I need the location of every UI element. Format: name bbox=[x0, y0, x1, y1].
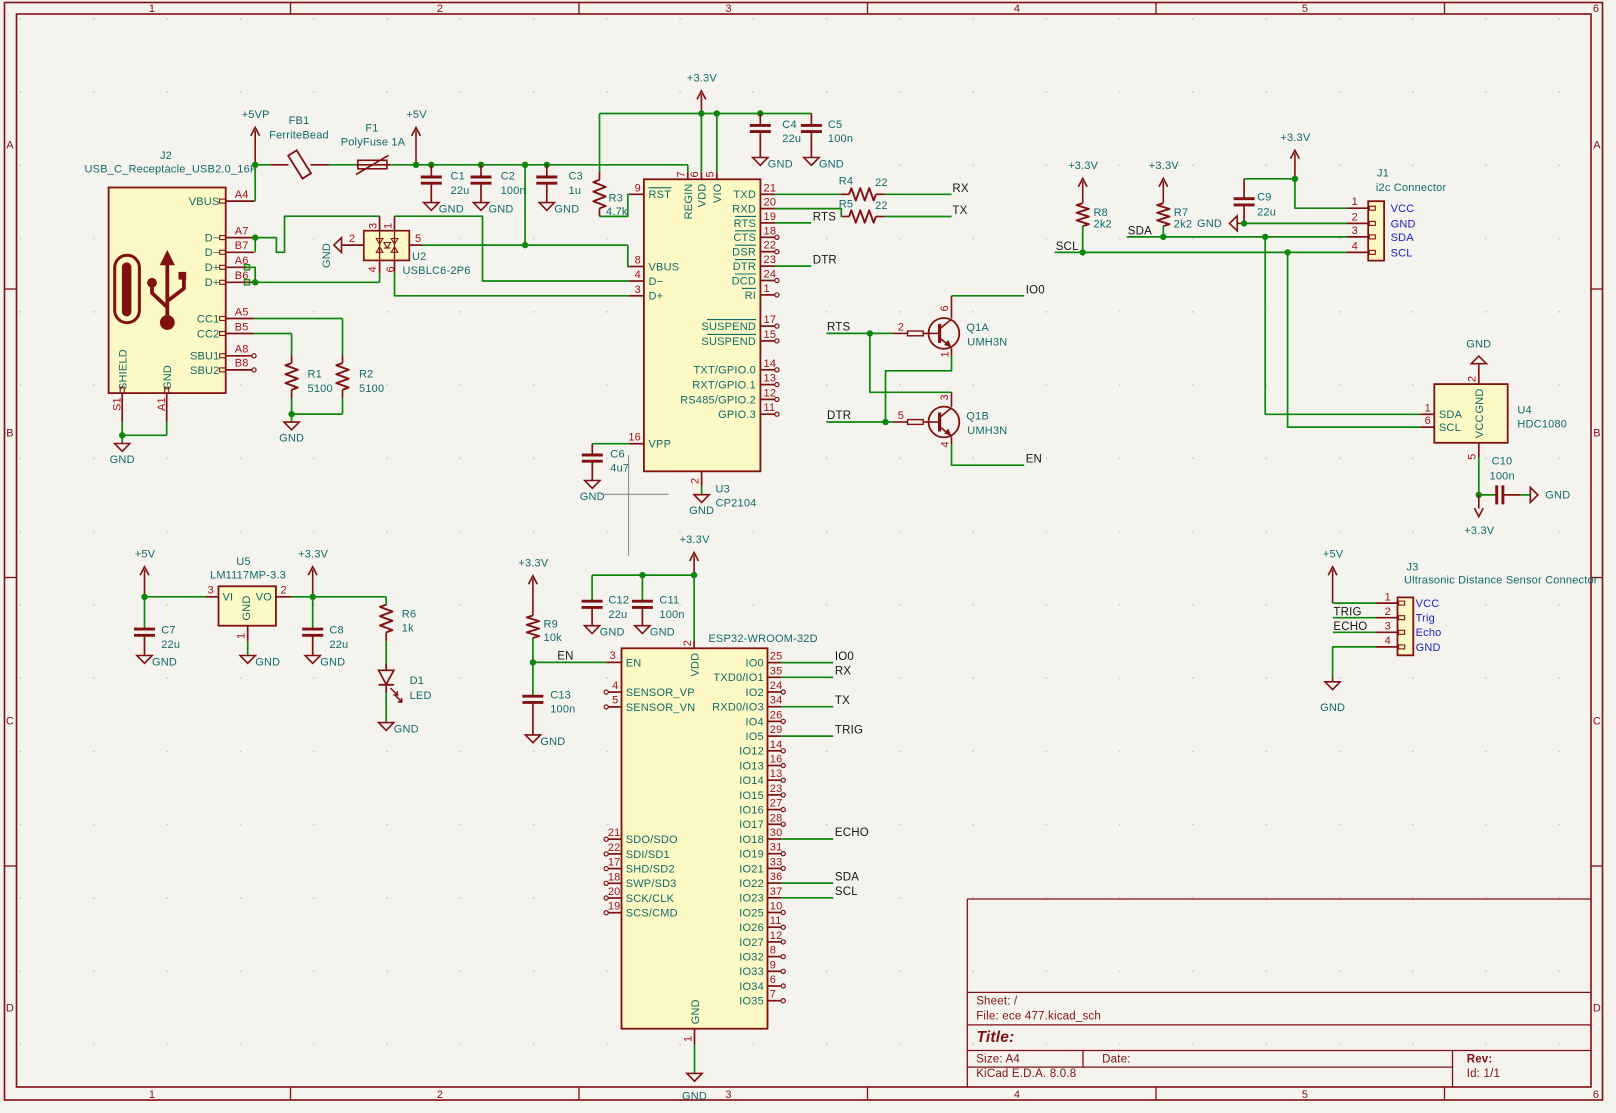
svg-text:C: C bbox=[1593, 716, 1601, 728]
svg-text:GND: GND bbox=[1474, 389, 1486, 414]
ground below U3 bbox=[694, 495, 709, 503]
svg-text:IO27: IO27 bbox=[739, 937, 764, 949]
svg-text:TX: TX bbox=[835, 695, 850, 707]
svg-text:9: 9 bbox=[770, 959, 776, 971]
svg-text:C2: C2 bbox=[501, 171, 515, 183]
svg-text:RTS: RTS bbox=[734, 218, 756, 230]
power +3.3V above R8 bbox=[1082, 181, 1084, 203]
svg-text:File: ece 477.kicad_sch: File: ece 477.kicad_sch bbox=[976, 1011, 1101, 1023]
svg-text:2: 2 bbox=[898, 321, 904, 333]
wire F1 to +5V rail bbox=[390, 164, 688, 166]
svg-text:+3.3V: +3.3V bbox=[1464, 525, 1495, 537]
svg-text:IO18: IO18 bbox=[739, 834, 764, 846]
svg-text:SDA: SDA bbox=[1439, 409, 1463, 421]
ESP32 pin 29 IO5 bbox=[746, 724, 783, 743]
svg-text:18: 18 bbox=[764, 225, 777, 237]
power +3.3V above ESP32 VDD bbox=[693, 556, 695, 576]
svg-text:RS485/GPIO.2: RS485/GPIO.2 bbox=[680, 394, 756, 406]
junction VDD bbox=[691, 572, 697, 578]
svg-text:2: 2 bbox=[281, 585, 287, 597]
svg-text:21: 21 bbox=[764, 182, 777, 194]
polyfuse F1 1A bbox=[341, 122, 406, 174]
capacitor C6 4u7 bbox=[582, 444, 629, 481]
power +3.3V above C8 bbox=[312, 570, 314, 597]
svg-text:1: 1 bbox=[764, 283, 770, 295]
wire C9 top to +3.3V bbox=[1244, 178, 1295, 180]
wire CC1 to R2 bbox=[254, 319, 342, 356]
svg-text:4: 4 bbox=[367, 266, 379, 272]
svg-text:SHD/SD2: SHD/SD2 bbox=[626, 864, 675, 876]
svg-text:RX: RX bbox=[835, 666, 852, 678]
resistor R1 5100 bbox=[285, 355, 332, 398]
junction SCL drop bbox=[1284, 249, 1290, 255]
svg-text:SUSPEND: SUSPEND bbox=[701, 336, 756, 348]
wire R1 R2 to ground bbox=[292, 398, 343, 422]
power +5V at rail bbox=[415, 130, 417, 164]
svg-text:GND: GND bbox=[650, 627, 675, 639]
svg-text:3: 3 bbox=[368, 223, 380, 229]
ESP32 pin 10 IO25 bbox=[739, 901, 785, 920]
svg-text:30: 30 bbox=[770, 827, 783, 839]
svg-text:100n: 100n bbox=[659, 609, 684, 621]
ground below C7 bbox=[137, 656, 152, 664]
svg-text:Trig: Trig bbox=[1416, 613, 1435, 625]
svg-text:GND: GND bbox=[768, 158, 793, 170]
svg-text:2: 2 bbox=[437, 3, 443, 15]
svg-text:6: 6 bbox=[939, 305, 951, 311]
svg-text:GND: GND bbox=[241, 595, 253, 620]
U4 pin 2 GND (top) bbox=[1467, 367, 1487, 413]
svg-text:25: 25 bbox=[770, 651, 783, 663]
U2 pin 4 stub bbox=[367, 260, 380, 282]
svg-text:3: 3 bbox=[208, 585, 214, 597]
svg-text:23: 23 bbox=[770, 783, 783, 795]
svg-text:VCC: VCC bbox=[1416, 598, 1440, 610]
svg-text:GND: GND bbox=[489, 204, 514, 216]
svg-text:F1: F1 bbox=[365, 122, 378, 134]
svg-text:100n: 100n bbox=[1490, 470, 1515, 482]
ground below C13 bbox=[525, 735, 540, 743]
svg-text:A7: A7 bbox=[235, 225, 249, 237]
svg-text:4: 4 bbox=[939, 441, 951, 447]
svg-text:C3: C3 bbox=[569, 171, 583, 183]
capacitor C7 22u bbox=[134, 597, 180, 656]
svg-text:21: 21 bbox=[608, 827, 621, 839]
wire +3.3V rail bbox=[600, 114, 812, 172]
capacitor C4 22u bbox=[750, 114, 801, 158]
svg-text:U5: U5 bbox=[236, 556, 250, 568]
ground below C1 bbox=[424, 203, 439, 211]
U3 pin 18 CTS bbox=[733, 225, 779, 244]
svg-text:14: 14 bbox=[770, 739, 783, 751]
svg-text:GND: GND bbox=[540, 736, 565, 748]
U3 pin 21 TXD bbox=[733, 182, 776, 201]
svg-text:R5: R5 bbox=[839, 199, 853, 211]
junction C1 top bbox=[428, 162, 434, 168]
U4 pin 5 VCC (bottom) bbox=[1467, 414, 1487, 459]
svg-text:VBUS: VBUS bbox=[649, 261, 680, 273]
ic U2 USBLC6-2P6 bbox=[364, 231, 471, 277]
wire DTR to Q1B base bbox=[826, 421, 892, 423]
svg-text:RTS: RTS bbox=[813, 211, 837, 223]
wire Q1B emitter to EN bbox=[952, 437, 1025, 466]
svg-text:6: 6 bbox=[689, 171, 701, 177]
svg-text:1: 1 bbox=[1385, 591, 1391, 603]
svg-text:3: 3 bbox=[635, 284, 641, 296]
svg-text:7: 7 bbox=[770, 989, 776, 1001]
svg-text:R4: R4 bbox=[839, 176, 853, 188]
ic U5 LM1117MP-3.3 bbox=[210, 556, 286, 626]
svg-text:TXD: TXD bbox=[733, 189, 756, 201]
wire CC2 to R1 bbox=[254, 334, 292, 356]
svg-text:A1: A1 bbox=[156, 397, 168, 411]
ground flag at C9 (left) bbox=[1197, 216, 1241, 231]
svg-text:36: 36 bbox=[770, 871, 783, 883]
J1 pin 4 SCL bbox=[1347, 240, 1413, 259]
ground symbol below R1 R2 bbox=[284, 422, 299, 430]
U2 pin 6 stub bbox=[385, 260, 397, 273]
capacitor C3 1u bbox=[536, 165, 583, 203]
USB logo inside J2 bbox=[115, 250, 187, 330]
capacitor C13 100n bbox=[522, 662, 575, 735]
wire TXD to R4 bbox=[775, 193, 841, 195]
svg-text:C7: C7 bbox=[161, 624, 175, 636]
svg-text:1: 1 bbox=[1352, 196, 1358, 208]
svg-text:SWP/SD3: SWP/SD3 bbox=[626, 878, 677, 890]
svg-text:SCL: SCL bbox=[835, 886, 858, 898]
svg-text:+5VP: +5VP bbox=[242, 109, 270, 121]
svg-text:VO: VO bbox=[256, 592, 273, 604]
wire D- A7 B7 to U2 pin3 bbox=[254, 216, 380, 252]
svg-text:100n: 100n bbox=[501, 185, 526, 197]
svg-text:22: 22 bbox=[875, 177, 888, 189]
svg-text:100n: 100n bbox=[828, 133, 853, 145]
svg-text:i2c Connector: i2c Connector bbox=[1376, 182, 1447, 194]
power +3.3V above R9 bbox=[532, 579, 534, 616]
wire VBUS rail to pin7 bbox=[687, 165, 689, 173]
capacitor C11 100n bbox=[632, 575, 685, 626]
svg-text:1k: 1k bbox=[402, 622, 414, 634]
junction B6 bbox=[252, 279, 258, 285]
svg-text:VBUS: VBUS bbox=[189, 196, 220, 208]
svg-text:J1: J1 bbox=[1377, 168, 1389, 180]
svg-text:22u: 22u bbox=[608, 609, 627, 621]
svg-text:RXD: RXD bbox=[732, 204, 756, 216]
svg-text:29: 29 bbox=[770, 724, 783, 736]
svg-text:Q1B: Q1B bbox=[966, 411, 989, 423]
U4 pin 6 SCL bbox=[1420, 415, 1461, 434]
wire VO to +3.3V junction bbox=[292, 596, 387, 598]
svg-text:6: 6 bbox=[1593, 1089, 1599, 1101]
ESP32 pin 35 TXD0/IO1 bbox=[713, 665, 782, 684]
wire RTS to Q1B collector bbox=[870, 333, 952, 392]
svg-text:SDO/SDO: SDO/SDO bbox=[626, 834, 678, 846]
svg-text:2k2: 2k2 bbox=[1174, 218, 1192, 230]
wire SDA to U4 bbox=[1265, 237, 1420, 414]
wire IO23 to SCL bbox=[781, 897, 833, 899]
svg-text:GND: GND bbox=[600, 627, 625, 639]
svg-text:SDI/SD1: SDI/SD1 bbox=[626, 849, 670, 861]
svg-text:IO17: IO17 bbox=[739, 819, 764, 831]
junction U4 VCC C10 bbox=[1476, 492, 1482, 498]
svg-text:Q1A: Q1A bbox=[966, 322, 989, 334]
svg-text:1: 1 bbox=[939, 351, 951, 357]
J3 pin 1 VCC bbox=[1376, 591, 1439, 610]
wire RXD0/IO3 to TX bbox=[781, 706, 833, 708]
svg-text:22u: 22u bbox=[782, 133, 801, 145]
capacitor C2 100n bbox=[471, 165, 526, 203]
ground below C2 bbox=[473, 203, 488, 211]
svg-text:IO22: IO22 bbox=[739, 878, 764, 890]
power +5VP bbox=[242, 109, 270, 165]
ESP32 pin 4 SENSOR_VP bbox=[604, 680, 695, 699]
U3 pin 13 RXT/GPIO.1 bbox=[692, 373, 779, 392]
svg-text:10k: 10k bbox=[544, 632, 563, 644]
svg-text:19: 19 bbox=[608, 901, 621, 913]
svg-text:PolyFuse 1A: PolyFuse 1A bbox=[341, 137, 406, 149]
svg-text:SDA: SDA bbox=[1128, 225, 1152, 237]
U3 pin 4 D− bbox=[630, 269, 664, 288]
svg-text:ESP32-WROOM-32D: ESP32-WROOM-32D bbox=[708, 633, 817, 645]
wire GND to J1 pin2 bbox=[1241, 222, 1348, 224]
U3 pin 19 RTS bbox=[734, 211, 777, 230]
svg-text:TRIG: TRIG bbox=[835, 724, 863, 736]
svg-text:22u: 22u bbox=[161, 639, 180, 651]
ground below J3 bbox=[1320, 678, 1345, 715]
svg-text:EN: EN bbox=[626, 657, 642, 669]
svg-text:GND: GND bbox=[580, 491, 605, 503]
svg-text:D−: D− bbox=[205, 233, 220, 245]
J2 pin A8 SBU1 bbox=[190, 344, 256, 363]
svg-text:A: A bbox=[6, 140, 14, 152]
J2 pin B6 D+ bbox=[205, 270, 254, 289]
svg-text:TXT/GPIO.0: TXT/GPIO.0 bbox=[693, 365, 756, 377]
svg-text:C1: C1 bbox=[451, 171, 465, 183]
svg-text:3: 3 bbox=[725, 1089, 731, 1101]
junction C3 top bbox=[544, 162, 550, 168]
junction C8 VO bbox=[310, 594, 316, 600]
connector J3 body bbox=[1398, 562, 1598, 656]
svg-text:GND: GND bbox=[152, 656, 177, 668]
svg-text:4: 4 bbox=[1385, 635, 1391, 647]
svg-text:SCS/CMD: SCS/CMD bbox=[626, 908, 678, 920]
svg-text:11: 11 bbox=[770, 915, 782, 927]
wire IO22 to SDA bbox=[781, 882, 833, 884]
ESP32 pin 34 RXD0/IO3 bbox=[712, 695, 782, 714]
svg-text:3: 3 bbox=[610, 650, 616, 662]
led D1 bbox=[379, 664, 432, 703]
J3 pin 4 GND bbox=[1376, 635, 1441, 654]
wire U4 VCC down bbox=[1478, 457, 1480, 495]
svg-text:A: A bbox=[1593, 140, 1601, 152]
ESP32 pin 26 IO4 bbox=[746, 709, 786, 728]
U3 pin 16 VPP bbox=[628, 432, 671, 451]
svg-text:Echo: Echo bbox=[1416, 627, 1442, 639]
svg-text:D1: D1 bbox=[410, 675, 424, 687]
capacitor C5 100n bbox=[801, 114, 853, 158]
svg-text:2k2: 2k2 bbox=[1094, 218, 1112, 230]
svg-text:UMH3N: UMH3N bbox=[967, 336, 1007, 348]
resistor R4 22 bbox=[839, 176, 888, 201]
capacitor C1 22u bbox=[421, 165, 470, 203]
svg-text:4: 4 bbox=[1014, 1089, 1020, 1101]
svg-text:4: 4 bbox=[1014, 3, 1020, 15]
junction U2 feed bbox=[522, 162, 528, 168]
svg-text:IO4: IO4 bbox=[746, 716, 764, 728]
connector J1 i2c body bbox=[1368, 168, 1446, 261]
svg-text:IO0: IO0 bbox=[1026, 284, 1045, 296]
svg-text:VIO: VIO bbox=[712, 183, 724, 203]
J2 pin B7 D− bbox=[205, 240, 254, 259]
junction J1 VCC bbox=[1292, 176, 1298, 182]
ground below ESP32 bbox=[682, 1073, 707, 1102]
U2 pin 5 to VBUS wire bbox=[409, 165, 629, 267]
svg-text:SCL: SCL bbox=[1391, 247, 1413, 259]
svg-text:DTR: DTR bbox=[733, 261, 756, 273]
junction C11 bbox=[639, 572, 645, 578]
svg-text:5: 5 bbox=[1302, 3, 1308, 15]
wire ECHO to J3 pin3 bbox=[1333, 631, 1376, 633]
svg-text:28: 28 bbox=[770, 812, 783, 824]
wire D1 to ground bbox=[385, 693, 387, 723]
svg-text:100n: 100n bbox=[550, 704, 575, 716]
ESP32 pin 25 IO0 bbox=[746, 651, 783, 670]
svg-text:IO12: IO12 bbox=[739, 746, 764, 758]
svg-text:GND: GND bbox=[1416, 642, 1441, 654]
svg-text:24: 24 bbox=[770, 680, 783, 692]
svg-text:GND: GND bbox=[162, 365, 174, 390]
svg-text:R3: R3 bbox=[609, 193, 623, 205]
resistor R2 5100 bbox=[336, 355, 384, 398]
svg-text:11: 11 bbox=[764, 402, 776, 414]
svg-text:4: 4 bbox=[635, 269, 641, 281]
svg-text:REGIN: REGIN bbox=[683, 184, 695, 220]
svg-text:D+: D+ bbox=[649, 291, 664, 303]
svg-text:B: B bbox=[1593, 428, 1601, 440]
svg-text:+3.3V: +3.3V bbox=[680, 534, 711, 546]
U3 pin 8 VBUS bbox=[630, 255, 680, 274]
U3 pin 22 DSR bbox=[732, 240, 779, 259]
U2 pin 3 stub bbox=[368, 216, 380, 231]
svg-text:IO16: IO16 bbox=[739, 805, 764, 817]
wire J3 pin4 to ground bbox=[1333, 647, 1376, 678]
wire RTS stub bbox=[775, 222, 811, 224]
svg-text:D+: D+ bbox=[205, 277, 220, 289]
svg-text:FB1: FB1 bbox=[289, 115, 310, 127]
U3 pin 7 REGIN (top) bbox=[676, 171, 696, 219]
wire SCL to U4 bbox=[1288, 252, 1421, 427]
U3 pin 14 TXT/GPIO.0 bbox=[693, 358, 779, 377]
svg-text:17: 17 bbox=[764, 314, 777, 326]
svg-text:DCD: DCD bbox=[732, 275, 756, 287]
ESP32 pin 24 IO2 bbox=[746, 680, 786, 699]
svg-text:CTS: CTS bbox=[733, 232, 756, 244]
svg-text:C6: C6 bbox=[610, 449, 624, 461]
ESP32 pin 3 EN bbox=[606, 650, 641, 669]
svg-text:22u: 22u bbox=[329, 639, 348, 651]
ground below C6 bbox=[585, 481, 600, 489]
capacitor C10 100n bbox=[1479, 455, 1521, 504]
resistor R8 2k2 bbox=[1077, 203, 1112, 252]
svg-text:+3.3V: +3.3V bbox=[687, 73, 718, 85]
svg-text:Date:: Date: bbox=[1102, 1053, 1131, 1065]
U3 pin 17 SUSPEND bbox=[701, 314, 779, 333]
svg-text:1: 1 bbox=[149, 3, 155, 15]
transistor Q1B UMH3N bbox=[893, 394, 1008, 447]
svg-text:C8: C8 bbox=[329, 624, 343, 636]
ESP32 pin 20 SCK/CLK bbox=[604, 886, 675, 905]
svg-text:EN: EN bbox=[557, 651, 573, 663]
svg-text:SUSPEND: SUSPEND bbox=[701, 321, 756, 333]
svg-text:RXD0/IO3: RXD0/IO3 bbox=[712, 702, 764, 714]
ESP32 pin 6 IO34 bbox=[739, 974, 785, 993]
svg-text:1: 1 bbox=[682, 1036, 694, 1042]
svg-text:1u: 1u bbox=[569, 185, 582, 197]
svg-text:IO35: IO35 bbox=[739, 996, 764, 1008]
ESP32 pin 36 IO22 bbox=[739, 871, 782, 890]
svg-text:22: 22 bbox=[875, 200, 888, 212]
svg-text:VCC: VCC bbox=[1391, 203, 1415, 215]
J3 pin 3 Echo bbox=[1376, 621, 1441, 640]
svg-text:GND: GND bbox=[1391, 218, 1416, 230]
svg-text:Sheet: /: Sheet: / bbox=[976, 996, 1018, 1008]
junction DTR emitter bbox=[882, 419, 888, 425]
wire J2 VBUS up to +5VP bbox=[254, 165, 255, 201]
svg-text:5: 5 bbox=[415, 233, 421, 245]
wire VDD rail bbox=[592, 574, 694, 576]
svg-text:C9: C9 bbox=[1257, 191, 1271, 203]
ic U4 HDC1080 body bbox=[1434, 384, 1567, 443]
J2 pin A7 D− bbox=[205, 225, 254, 244]
ESP32 pin 23 IO15 bbox=[739, 783, 785, 802]
U3 pin 15 SUSPEND bbox=[701, 329, 779, 348]
power +5V above J3 bbox=[1323, 548, 1344, 603]
svg-text:UMH3N: UMH3N bbox=[967, 425, 1007, 437]
svg-text:GND: GND bbox=[1197, 218, 1222, 230]
J1 pin 2 GND bbox=[1347, 211, 1416, 230]
wire +5V to J3 pin1 bbox=[1333, 602, 1376, 604]
svg-text:CC2: CC2 bbox=[197, 328, 220, 340]
wire IO5 to TRIG bbox=[781, 735, 833, 737]
ground below C11 bbox=[635, 626, 650, 634]
resistor R3 4.7k bbox=[593, 172, 628, 218]
power +3.3V above R7 bbox=[1162, 181, 1164, 203]
svg-text:3: 3 bbox=[1385, 621, 1391, 633]
svg-text:TRIG: TRIG bbox=[1333, 606, 1361, 618]
svg-text:KiCad E.D.A. 8.0.8: KiCad E.D.A. 8.0.8 bbox=[976, 1068, 1076, 1080]
svg-text:22u: 22u bbox=[1257, 206, 1276, 218]
power +5V above C7 bbox=[144, 570, 146, 597]
ground below C3 bbox=[539, 203, 554, 211]
svg-text:8: 8 bbox=[770, 945, 776, 957]
svg-text:SBU2: SBU2 bbox=[190, 365, 220, 377]
power +3.3V below U4 (down) bbox=[1464, 495, 1495, 537]
junction C9 bottom bbox=[1241, 220, 1247, 226]
U3 pin 3 D+ bbox=[630, 284, 664, 303]
svg-text:ECHO: ECHO bbox=[1333, 621, 1367, 633]
svg-text:IO32: IO32 bbox=[739, 952, 764, 964]
svg-text:SENSOR_VN: SENSOR_VN bbox=[626, 702, 696, 714]
svg-text:GND: GND bbox=[554, 204, 579, 216]
ground below C12 bbox=[585, 626, 600, 634]
ESP32 pin 12 IO27 bbox=[739, 930, 785, 949]
svg-text:Id: 1/1: Id: 1/1 bbox=[1467, 1068, 1500, 1080]
svg-text:D: D bbox=[1593, 1003, 1601, 1015]
svg-text:5100: 5100 bbox=[308, 383, 333, 395]
svg-text:2: 2 bbox=[1467, 376, 1479, 382]
ESP32 pin 30 IO18 bbox=[739, 827, 782, 846]
svg-text:R9: R9 bbox=[544, 619, 558, 631]
